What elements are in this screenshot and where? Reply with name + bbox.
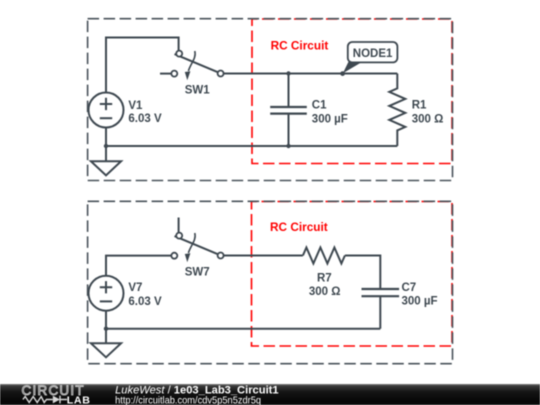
voltage source V1: [89, 93, 124, 147]
svg-text:R7: R7: [317, 272, 332, 284]
svg-text:LAB: LAB: [67, 395, 91, 405]
svg-text:300 µF: 300 µF: [312, 113, 348, 125]
wire SW7 top stub: [178, 218, 180, 233]
svg-text:SW7: SW7: [185, 266, 210, 278]
svg-text:http://circuitlab.com/cdv5p5n5: http://circuitlab.com/cdv5p5n5zdr5q: [115, 395, 261, 405]
svg-text:300 Ω: 300 Ω: [412, 113, 444, 125]
RC Circuit red dashed box (circuit 1): [252, 19, 452, 164]
CircuitLab logo resistor zigzag: [23, 397, 53, 403]
svg-text:SW1: SW1: [185, 84, 211, 96]
CircuitLab logo diode: [53, 396, 60, 404]
wire SW7 to R7: [224, 255, 303, 257]
wire SW1 to R1 (top rail, circuit 1): [224, 73, 398, 75]
outer gray dashed box (circuit 2): [88, 201, 453, 363]
svg-text:V1: V1: [128, 100, 143, 112]
svg-text:RC Circuit: RC Circuit: [271, 39, 329, 53]
svg-text:C7: C7: [402, 282, 417, 294]
switch SW7: [171, 233, 223, 263]
node junction dots (circuit 1): [286, 71, 290, 75]
footer background bar: [0, 384, 540, 405]
ground (circuit 1): [91, 146, 121, 175]
svg-text:C1: C1: [312, 100, 327, 112]
resistor R1: [389, 74, 405, 147]
node NODE1 flag: [340, 42, 397, 76]
wire V7 to SW7: [106, 256, 171, 276]
RC Circuit red dashed box (circuit 2): [252, 202, 453, 347]
wire R7 to C7: [345, 256, 380, 290]
wire bottom rail (circuit 2): [106, 328, 380, 330]
outer gray dashed box (circuit 1): [88, 19, 453, 181]
svg-text:6.03 V: 6.03 V: [128, 296, 162, 308]
svg-text:V7: V7: [128, 282, 142, 294]
ground (circuit 2): [91, 329, 121, 358]
capacitor C7: [362, 289, 400, 329]
wire SW1 left stub: [160, 73, 171, 75]
svg-text:RC Circuit: RC Circuit: [270, 220, 328, 234]
resistor R7: [303, 248, 345, 264]
node junction dot V7 bottom: [104, 327, 108, 331]
wire bottom rail (circuit 1): [106, 145, 397, 147]
voltage source V7: [89, 276, 124, 329]
svg-text:6.03 V: 6.03 V: [128, 113, 162, 125]
wire V1 top to SW1: [106, 38, 179, 93]
svg-text:R1: R1: [412, 100, 427, 112]
capacitor C1: [270, 74, 307, 147]
svg-text:NODE1: NODE1: [353, 48, 393, 60]
svg-text:300 µF: 300 µF: [402, 296, 438, 308]
switch SW1: [171, 51, 223, 81]
svg-text:300 Ω: 300 Ω: [309, 286, 341, 298]
